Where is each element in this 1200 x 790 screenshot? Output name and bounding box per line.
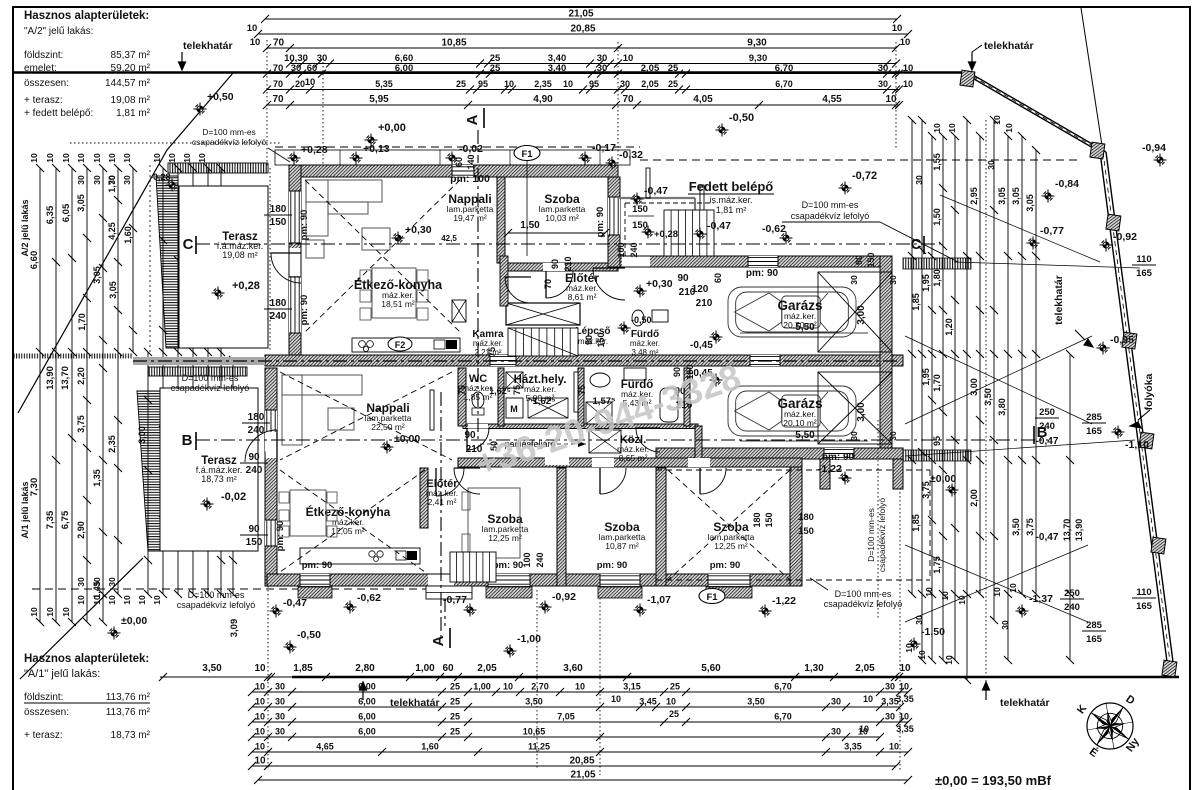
svg-text:C: C (183, 236, 194, 253)
vertical dim chain x87 (86, 168, 88, 622)
roof hip dashes upper apartment (305, 180, 460, 332)
svg-text:70: 70 (622, 94, 634, 105)
svg-text:-0,77: -0,77 (1040, 225, 1064, 237)
radiators thin (700, 185, 704, 245)
dim row 5,95 / 4,90 / 4,05 / 4,55 (267, 104, 899, 106)
svg-text:4,55: 4,55 (822, 94, 842, 105)
svg-text:10: 10 (182, 153, 192, 163)
svg-text:10: 10 (107, 595, 117, 605)
svg-text:máz.ker.: máz.ker. (473, 339, 503, 348)
svg-text:10: 10 (107, 153, 117, 163)
svg-text:10: 10 (29, 607, 39, 617)
svg-text:pm: 90: pm: 90 (493, 560, 524, 571)
svg-text:30: 30 (597, 63, 608, 74)
svg-text:±0,00: ±0,00 (394, 433, 420, 445)
svg-text:25: 25 (450, 712, 460, 722)
dim row 21,05 top (265, 18, 897, 20)
svg-text:csapadékvíz lefolyó: csapadékvíz lefolyó (824, 599, 903, 609)
svg-text:3,50: 3,50 (983, 388, 993, 406)
svg-text:pm: 90: pm: 90 (302, 560, 333, 571)
svg-text:1,81 m²: 1,81 m² (716, 205, 747, 215)
svg-text:25: 25 (456, 79, 466, 89)
svg-text:10: 10 (575, 682, 585, 692)
svg-text:144,57 m²: 144,57 m² (105, 78, 151, 89)
svg-text:120: 120 (692, 284, 709, 295)
leader diagonals right side (905, 336, 1092, 424)
svg-text:210: 210 (696, 298, 713, 309)
svg-text:-0,84: -0,84 (1055, 178, 1079, 190)
svg-text:-0,17: -0,17 (592, 142, 616, 154)
entry steps south outside (426, 586, 472, 599)
svg-text:F1: F1 (521, 149, 533, 160)
svg-text:113,76 m²: 113,76 m² (106, 707, 151, 718)
svg-text:180: 180 (270, 298, 287, 309)
svg-text:25: 25 (669, 709, 679, 719)
door terrace lower (245, 430, 277, 462)
svg-text:30: 30 (76, 577, 86, 587)
svg-text:75: 75 (512, 385, 522, 395)
svg-text:földszint:: földszint: (24, 692, 63, 703)
svg-text:10: 10 (666, 697, 676, 707)
wall fedett belépő vertical (608, 235, 620, 267)
svg-text:-0,92: -0,92 (1113, 231, 1137, 243)
section line B-B (196, 439, 1048, 441)
svg-text:10: 10 (45, 607, 55, 617)
beds in szobas (468, 488, 520, 558)
door szoba2 lower (600, 468, 626, 494)
svg-text:pm: 90: pm: 90 (275, 521, 286, 552)
svg-text:10: 10 (137, 595, 147, 605)
partition nappali/wc column (458, 368, 466, 426)
stairs lower entry (450, 552, 496, 582)
wall left A/2 (289, 165, 301, 355)
svg-text:1,60: 1,60 (421, 742, 439, 752)
garage1 car (728, 287, 856, 337)
svg-text:30: 30 (831, 697, 841, 707)
svg-text:2,90: 2,90 (76, 521, 86, 539)
kitchen counter upper (352, 338, 460, 352)
svg-text:10: 10 (152, 153, 162, 163)
svg-text:3,80: 3,80 (997, 398, 1007, 416)
svg-text:-1,00: -1,00 (517, 633, 541, 645)
svg-text:19,47 m²: 19,47 m² (453, 213, 487, 223)
svg-text:10: 10 (1008, 583, 1018, 593)
svg-text:30: 30 (986, 160, 996, 170)
F1 oval bottom (699, 589, 725, 604)
svg-text:165: 165 (1136, 601, 1153, 612)
svg-text:150: 150 (246, 537, 263, 548)
garage bottom wall (656, 448, 903, 459)
svg-text:25: 25 (450, 697, 460, 707)
sofa upper nappali (306, 180, 382, 202)
svg-text:5,60: 5,60 (701, 663, 721, 674)
door furdo lower (636, 428, 660, 452)
kitchen counter lower (300, 548, 420, 564)
door entry lower (436, 468, 464, 496)
svg-text:180: 180 (752, 512, 762, 527)
svg-text:30: 30 (888, 275, 898, 285)
vertical dim chain x103 (102, 168, 104, 622)
svg-text:7,05: 7,05 (557, 712, 575, 722)
svg-text:+0,28: +0,28 (654, 229, 678, 240)
dim row bottom 3,45 / 3,50 / 3,35 (252, 706, 900, 708)
svg-text:10: 10 (197, 153, 207, 163)
svg-text:-0,95: -0,95 (1110, 334, 1134, 346)
svg-text:30: 30 (831, 727, 841, 737)
svg-text:D=100 mm-es: D=100 mm-es (802, 200, 859, 210)
vertical dim chain x56 (55, 168, 57, 622)
svg-text:-1,50: -1,50 (921, 626, 945, 638)
svg-text:12,25 m²: 12,25 m² (488, 533, 522, 543)
svg-text:10: 10 (859, 724, 869, 734)
svg-text:285: 285 (1086, 620, 1103, 631)
svg-text:10: 10 (947, 123, 957, 133)
svg-text:10: 10 (889, 742, 899, 752)
svg-text:240: 240 (270, 311, 287, 322)
svg-text:6,05: 6,05 (61, 203, 72, 222)
garage2 car (728, 386, 856, 436)
svg-text:70: 70 (273, 63, 284, 74)
svg-text:6,35: 6,35 (45, 205, 56, 224)
svg-text:285: 285 (1086, 412, 1103, 423)
svg-text:3,50: 3,50 (747, 697, 765, 707)
terasz A/1 left retaining wall (137, 391, 160, 551)
svg-text:10: 10 (932, 123, 942, 133)
svg-text:-1,22: -1,22 (818, 463, 842, 475)
svg-text:1,55: 1,55 (932, 153, 942, 171)
vertical dim chain x133 (132, 168, 134, 352)
dim row bottom 20,85 (252, 765, 896, 767)
svg-text:10: 10 (122, 153, 132, 163)
svg-text:+0,00: +0,00 (378, 122, 406, 134)
garage front wall (620, 256, 892, 267)
svg-text:95: 95 (932, 436, 942, 446)
partition furdo/kozl (684, 368, 690, 426)
terasz A/1 top hatch band (148, 367, 247, 376)
svg-text:-0,50: -0,50 (631, 315, 652, 325)
table upper nappali (362, 228, 390, 250)
svg-text:1,50: 1,50 (932, 208, 942, 226)
svg-text:30: 30 (849, 431, 859, 441)
svg-text:10: 10 (45, 153, 55, 163)
svg-text:10: 10 (917, 650, 927, 660)
wall left A/1 (265, 368, 277, 586)
svg-text:150: 150 (798, 526, 814, 537)
svg-text:10: 10 (92, 153, 102, 163)
svg-text:6,00: 6,00 (358, 682, 376, 692)
svg-text:±0,00: ±0,00 (930, 473, 956, 485)
svg-text:1,60: 1,60 (123, 226, 133, 244)
svg-text:30: 30 (275, 712, 285, 722)
dim row bottom 7,05 / 6,70 (252, 721, 908, 723)
svg-text:13,70: 13,70 (60, 366, 71, 390)
svg-text:75: 75 (577, 385, 587, 395)
svg-text:2,35: 2,35 (534, 79, 552, 89)
svg-text:90: 90 (584, 335, 594, 345)
vertical dim chain x148 (147, 352, 149, 594)
svg-text:30: 30 (107, 175, 117, 185)
svg-text:+0,28: +0,28 (301, 144, 328, 156)
svg-text:-0,50: -0,50 (297, 629, 321, 641)
attic hatch X (589, 430, 621, 453)
svg-text:10: 10 (992, 115, 1002, 125)
vertical dim chain x1036 (1035, 150, 1037, 594)
svg-text:6,70: 6,70 (775, 79, 793, 89)
svg-text:3,50: 3,50 (202, 663, 222, 674)
svg-text:10: 10 (900, 37, 911, 48)
svg-text:10,65: 10,65 (523, 727, 546, 737)
partition elotér (420, 468, 428, 528)
eaves band top with level markers (275, 150, 630, 165)
svg-text:240: 240 (1064, 602, 1080, 613)
svg-text:25: 25 (670, 682, 680, 692)
svg-text:2,20: 2,20 (76, 367, 86, 385)
svg-text:18,73 m²: 18,73 m² (201, 474, 237, 484)
svg-text:13,90: 13,90 (1074, 519, 1084, 542)
door szoba3 lower (700, 468, 726, 494)
svg-text:3,35: 3,35 (896, 694, 914, 704)
svg-text:10: 10 (92, 595, 102, 605)
svg-text:12,25 m²: 12,25 m² (714, 541, 748, 551)
svg-text:pm: 90: pm: 90 (746, 268, 779, 279)
svg-text:csapadékvíz lefolyó: csapadékvíz lefolyó (877, 498, 887, 572)
sofa lower nappali (282, 375, 362, 395)
svg-text:5,50: 5,50 (795, 430, 815, 441)
svg-text:10: 10 (255, 682, 265, 692)
svg-text:110: 110 (1136, 254, 1151, 265)
F1 oval top (514, 146, 540, 161)
party wall heavy band (265, 355, 903, 366)
svg-text:25: 25 (450, 727, 460, 737)
vertical dim chain x922 (921, 120, 923, 660)
svg-text:+ fedett belépő:: + fedett belépő: (24, 108, 93, 119)
svg-text:10: 10 (992, 587, 1002, 597)
svg-text:30: 30 (76, 175, 86, 185)
svg-text:6,00: 6,00 (358, 697, 376, 707)
svg-text:-0,47: -0,47 (283, 597, 307, 609)
svg-text:-0,62: -0,62 (762, 223, 786, 235)
svg-text:8,65 m²: 8,65 m² (619, 453, 648, 463)
svg-text:42,5: 42,5 (441, 234, 457, 243)
svg-text:8,61 m²: 8,61 m² (568, 292, 597, 302)
washing machine M (506, 398, 523, 418)
vertical dim chain x912 (911, 120, 913, 594)
svg-text:1,75: 1,75 (932, 556, 942, 574)
svg-text:3,05: 3,05 (1011, 187, 1021, 205)
terasz A/1 floor (160, 388, 258, 551)
svg-text:-0,32: -0,32 (619, 149, 643, 161)
hip dashes szoba3/patio (668, 470, 790, 580)
svg-text:10: 10 (255, 727, 265, 737)
svg-text:10: 10 (924, 587, 934, 597)
vertical dim chain x118 (117, 168, 119, 594)
svg-text:70: 70 (272, 94, 284, 105)
svg-text:1,62⁵: 1,62⁵ (489, 386, 511, 396)
svg-text:10: 10 (503, 682, 513, 692)
svg-text:140: 140 (466, 154, 476, 169)
svg-text:250: 250 (1064, 588, 1080, 599)
svg-text:10: 10 (899, 712, 909, 722)
svg-text:60: 60 (307, 63, 318, 74)
dim row bottom 10,65 (252, 736, 880, 738)
fence telekhatár right (double line with posts) (962, 72, 1100, 152)
svg-text:7,35: 7,35 (45, 510, 56, 529)
door elotér->kamra (505, 277, 531, 303)
svg-text:90: 90 (550, 259, 560, 269)
table lower nappali (328, 408, 354, 430)
svg-text:csapadékvíz lefolyó: csapadékvíz lefolyó (171, 383, 250, 393)
svg-text:-0,02: -0,02 (221, 491, 246, 503)
wall piece bottom right (820, 459, 830, 489)
svg-text:30: 30 (92, 577, 102, 587)
svg-text:6,60: 6,60 (29, 251, 40, 270)
vertical dim chain x178 (177, 168, 179, 594)
svg-text:-0,77: -0,77 (443, 594, 467, 606)
svg-text:10: 10 (903, 79, 913, 89)
svg-text:6,75: 6,75 (60, 510, 71, 529)
svg-text:máz.ker.: máz.ker. (630, 339, 660, 348)
svg-text:B: B (182, 432, 193, 449)
svg-text:165: 165 (1136, 268, 1153, 279)
svg-text:25: 25 (450, 682, 460, 692)
svg-text:-0,47: -0,47 (707, 220, 731, 232)
svg-text:1,35: 1,35 (92, 469, 102, 487)
svg-text:165: 165 (1086, 634, 1103, 645)
dim row bottom 3,50 / 5,60 on telekhatár (163, 676, 899, 678)
svg-text:telekhatár: telekhatár (1053, 275, 1065, 325)
wall under Szoba (505, 263, 618, 271)
svg-text:9,30: 9,30 (747, 38, 767, 49)
svg-text:4,65: 4,65 (316, 742, 334, 752)
svg-text:3,75: 3,75 (76, 415, 86, 433)
svg-text:±0,00 = 193,50 mBf: ±0,00 = 193,50 mBf (935, 773, 1052, 788)
svg-text:20,85: 20,85 (570, 24, 595, 35)
svg-text:Hasznos alapterületek:: Hasznos alapterületek: (24, 10, 149, 22)
eaves dashed outline (275, 146, 640, 148)
svg-text:1,95: 1,95 (921, 368, 931, 386)
svg-text:10: 10 (254, 756, 266, 767)
svg-text:100: 100 (616, 242, 626, 257)
svg-text:+ terasz:: + terasz: (24, 95, 63, 106)
svg-text:3,40: 3,40 (548, 63, 567, 74)
svg-text:5,35: 5,35 (375, 79, 393, 89)
vertical dim chain x1022 (1021, 136, 1023, 594)
svg-text:30: 30 (122, 175, 132, 185)
vertical dim chain x163 (162, 168, 164, 594)
svg-text:2,35: 2,35 (107, 435, 117, 453)
svg-text:3,05: 3,05 (92, 266, 102, 284)
svg-text:2,80: 2,80 (355, 663, 375, 674)
level markers (368, 137, 374, 143)
svg-text:90: 90 (248, 452, 260, 463)
svg-text:is.máz.ker.: is.máz.ker. (709, 195, 752, 205)
svg-text:10,85: 10,85 (441, 38, 466, 49)
svg-text:6,70: 6,70 (774, 712, 792, 722)
fence band to left edge (14, 354, 133, 359)
terasz A/2 left retaining wall (156, 176, 178, 348)
terasz A/2 floor (179, 186, 268, 348)
svg-text:-1,10: -1,10 (1125, 439, 1149, 451)
svg-text:20,85: 20,85 (569, 756, 594, 767)
svg-text:3,50: 3,50 (1011, 518, 1021, 536)
svg-text:10: 10 (1004, 123, 1014, 133)
svg-text:3,35: 3,35 (844, 742, 862, 752)
partition szoba2/szoba3 (656, 468, 666, 586)
svg-text:3,75: 3,75 (1025, 518, 1035, 536)
svg-text:30: 30 (885, 712, 895, 722)
svg-text:±0,00: ±0,00 (121, 615, 147, 627)
svg-text:-0,45: -0,45 (690, 340, 713, 351)
vertical dim chain x221 (220, 168, 222, 594)
svg-text:90: 90 (854, 255, 864, 265)
svg-text:4,25: 4,25 (107, 222, 117, 240)
svg-text:10: 10 (152, 595, 162, 605)
dim row 6,60 / 3,40 / 9,30 (290, 63, 896, 65)
svg-text:10: 10 (76, 153, 86, 163)
svg-text:F1: F1 (706, 592, 718, 603)
svg-text:1,80: 1,80 (932, 269, 942, 287)
svg-text:1,85: 1,85 (911, 293, 921, 311)
svg-text:30: 30 (275, 727, 285, 737)
F2 oval (388, 337, 412, 351)
svg-text:25: 25 (668, 79, 678, 89)
dim row 5,35 / 2,35 / 6,70 (267, 89, 899, 91)
svg-text:csapadékvíz lefolyó: csapadékvíz lefolyó (192, 137, 266, 147)
svg-text:pm: 90: pm: 90 (597, 560, 628, 571)
svg-text:10: 10 (61, 607, 71, 617)
svg-text:30: 30 (1000, 620, 1010, 630)
svg-text:10: 10 (76, 595, 86, 605)
svg-text:113,76 m²: 113,76 m² (106, 692, 151, 703)
wall right of Szoba (608, 177, 620, 267)
svg-text:összesen:: összesen: (24, 78, 69, 89)
svg-text:+0,30: +0,30 (646, 278, 673, 290)
dim row 10,85 / 9,30 (267, 47, 896, 49)
svg-text:"A/2" jelű lakás:: "A/2" jelű lakás: (24, 26, 93, 37)
svg-text:telekhatár: telekhatár (183, 40, 233, 52)
svg-text:10: 10 (504, 79, 514, 89)
svg-text:95: 95 (478, 79, 488, 89)
dining set lower (290, 490, 326, 536)
svg-text:3,05: 3,05 (108, 281, 118, 299)
wall right szoba3 (790, 459, 802, 586)
door entry upper (fedett belépő) (593, 268, 625, 300)
svg-text:5,50: 5,50 (795, 322, 815, 333)
svg-text:10: 10 (892, 23, 903, 34)
svg-text:10: 10 (255, 697, 265, 707)
svg-text:180: 180 (248, 412, 265, 423)
svg-text:10: 10 (899, 663, 911, 674)
svg-text:30: 30 (275, 682, 285, 692)
svg-text:1,50: 1,50 (520, 220, 540, 231)
wc toilet lower (472, 392, 484, 408)
svg-text:10: 10 (254, 663, 266, 674)
svg-text:1,81 m²: 1,81 m² (116, 108, 151, 119)
svg-text:1,95: 1,95 (921, 274, 931, 292)
svg-text:165: 165 (1086, 426, 1103, 437)
svg-text:12,05 m²: 12,05 m² (331, 526, 365, 536)
svg-text:10: 10 (250, 37, 261, 48)
svg-text:100: 100 (522, 552, 532, 567)
telekhatár bottom heavy line (292, 676, 1179, 679)
svg-text:75: 75 (457, 385, 467, 395)
svg-text:150: 150 (632, 220, 648, 231)
svg-text:10: 10 (885, 94, 897, 105)
vertical dim chain x1008 (1007, 136, 1009, 660)
svg-text:-1,07: -1,07 (647, 594, 671, 606)
svg-text:70: 70 (543, 279, 553, 289)
canopy edge fedett belépő (618, 197, 695, 199)
